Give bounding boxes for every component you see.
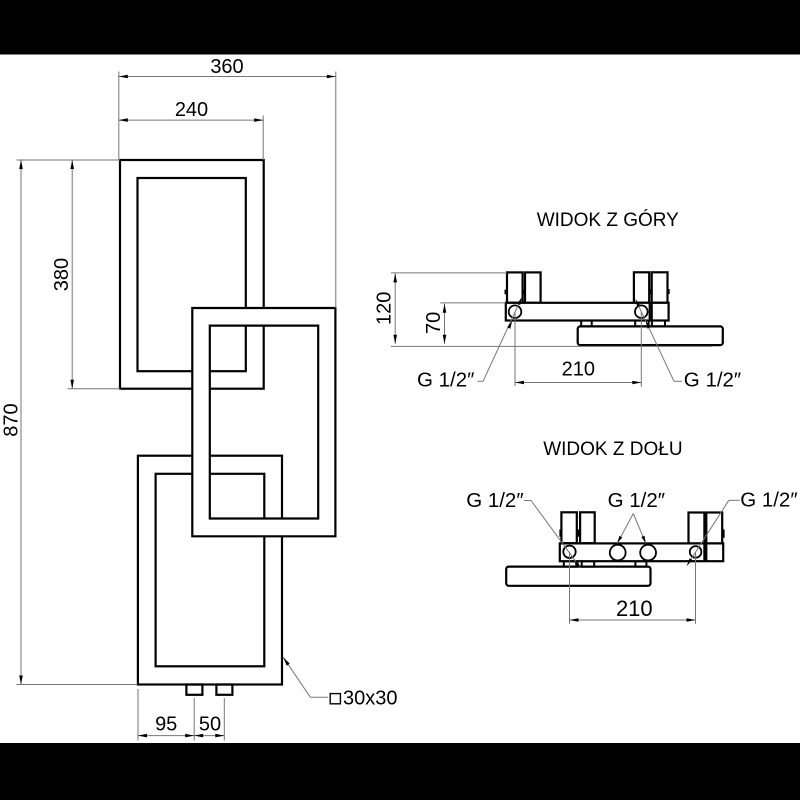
svg-text:WIDOK Z GÓRY: WIDOK Z GÓRY	[537, 209, 679, 231]
svg-text:210: 210	[562, 359, 595, 381]
svg-text:870: 870	[1, 403, 23, 436]
svg-text:95: 95	[155, 714, 177, 736]
svg-text:G 1/2″: G 1/2″	[466, 489, 523, 512]
svg-text:G 1/2″: G 1/2″	[417, 369, 474, 392]
svg-text:240: 240	[175, 99, 208, 121]
svg-text:G 1/2″: G 1/2″	[740, 489, 797, 512]
svg-text:360: 360	[210, 56, 243, 78]
svg-text:50: 50	[199, 714, 221, 736]
svg-text:210: 210	[616, 596, 653, 621]
svg-text:G 1/2″: G 1/2″	[684, 369, 741, 392]
svg-text:70: 70	[423, 312, 445, 334]
svg-text:30x30: 30x30	[343, 688, 398, 710]
svg-text:120: 120	[374, 292, 396, 325]
svg-text:WIDOK Z DOŁU: WIDOK Z DOŁU	[543, 439, 682, 460]
svg-text:380: 380	[51, 258, 73, 291]
svg-text:G 1/2″: G 1/2″	[608, 489, 665, 512]
